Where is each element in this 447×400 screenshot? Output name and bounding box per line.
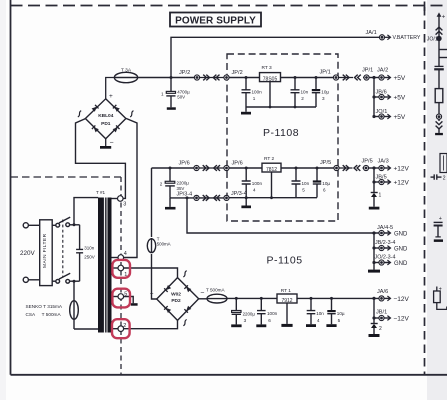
wire cap to resistor [438, 70, 440, 89]
JB/1 branch [374, 317, 379, 319]
capacitor C2200u/3 stem [235, 298, 237, 310]
svg-text:310n: 310n [84, 246, 95, 251]
svg-text:−: − [110, 139, 114, 146]
capacitor C100n/6 plates [257, 311, 266, 314]
arrow JB/5 [384, 181, 390, 183]
wire pin1 to W02 AC top [124, 268, 178, 278]
svg-text:7812: 7812 [266, 167, 277, 173]
capacitor C10u/3 stem [315, 78, 317, 108]
+5V branch riser [373, 78, 375, 117]
connector JO/2-3-4 [379, 260, 384, 265]
capacitor C10n/2 plates [291, 90, 300, 93]
bottom border line [11, 374, 447, 376]
junction C2 top [169, 167, 172, 170]
svg-text:T: T [157, 236, 160, 241]
svg-text:RT 3: RT 3 [262, 65, 273, 71]
wire between JP/2 halves [200, 77, 225, 79]
squiggle AC top [183, 271, 186, 277]
connector JP/1 plug [364, 75, 369, 80]
svg-text:+: + [442, 15, 446, 21]
junction C100n/4 top [245, 167, 248, 170]
capacitor C100n/1 plates [242, 90, 251, 93]
wire corner down to fuse [151, 168, 153, 237]
diode PD2 bottom-left [164, 306, 171, 313]
ground stem bottom [245, 198, 247, 206]
junction rail RT2 pin [270, 196, 273, 199]
capacitor C10u/3 top plate [312, 89, 320, 91]
svg-text:JB/2-3-4: JB/2-3-4 [375, 240, 395, 246]
svg-text:1: 1 [379, 193, 382, 199]
transformer board dashed horizontal [11, 176, 122, 178]
chevrons JP/2 left [213, 75, 219, 81]
ground bar C2200u/3 [231, 324, 241, 327]
branch right 1 [439, 49, 447, 51]
terminal 220V bottom [23, 277, 28, 282]
svg-text:10µ: 10µ [321, 90, 329, 95]
capacitor C1 4700u plates [166, 91, 175, 93]
wire cap2 junction to JP/34 [170, 197, 194, 199]
wire RT3 to caps [281, 77, 335, 79]
wire between JP/34 halves [199, 197, 224, 199]
arrow JA/1 [385, 36, 390, 38]
svg-text:+: + [150, 291, 154, 298]
svg-text:JP/2: JP/2 [232, 70, 243, 76]
svg-text:JP/1: JP/1 [320, 70, 331, 76]
svg-text:+: + [439, 216, 442, 222]
red highlight pin 2 [112, 319, 130, 338]
svg-text:PD2: PD2 [171, 298, 181, 304]
right strip scan shading [427, 0, 447, 400]
chevrons JP/5 right [343, 165, 349, 171]
arrow JB/6 [384, 96, 390, 98]
junction JO/2-3-4 [372, 261, 375, 264]
squiggle AC left [78, 111, 81, 117]
svg-text:5: 5 [338, 318, 341, 323]
junction C100n/1 top [245, 76, 248, 79]
ground bar C10u/5 [326, 324, 336, 327]
bridge PD2 diamond [157, 278, 199, 321]
ground stem [245, 107, 247, 112]
chevrons JP/2 right [203, 75, 209, 81]
capacitor C100n/1 stem [245, 78, 247, 90]
cap plates right top [435, 65, 444, 67]
zener Z1 ground bar [369, 207, 380, 210]
capacitor C2 2200u stem [169, 168, 171, 181]
ground rail P-1108 bottom [229, 197, 317, 199]
svg-text:T #1: T #1 [96, 190, 106, 195]
junction GND drop [186, 196, 189, 199]
capacitor C10n/5 stem [295, 168, 297, 198]
pin 4 circle [118, 255, 124, 261]
svg-text:MAIN FILTER: MAIN FILTER [42, 233, 48, 268]
zener Z2 ground bar [369, 334, 380, 337]
squiggle AC bottom [183, 320, 186, 326]
junction JB/6 [372, 95, 375, 98]
wire between JP/6 halves [199, 167, 224, 169]
svg-text:CSA T 500mA: CSA T 500mA [26, 312, 62, 317]
ground bar P-1108 top [241, 112, 251, 115]
svg-text:GND: GND [394, 247, 408, 253]
pin 3 stub [112, 198, 118, 200]
GND ground stem [373, 263, 375, 270]
junction C10u/6 top [316, 167, 319, 170]
wire fuse to transformer bottom [74, 328, 98, 330]
junction JA/6 [372, 297, 375, 300]
capacitor C2 2200u plates [165, 181, 175, 183]
red highlight pin 1 [112, 260, 130, 278]
junction JO/1 [372, 115, 375, 118]
ground bar C100n/6 [256, 324, 266, 327]
zener Z2 stem to ground [373, 328, 375, 334]
+12V branch riser [373, 168, 375, 182]
pin 4 stub [112, 257, 119, 259]
capacitor C10u/6 stem [316, 168, 318, 198]
svg-text:JP/6: JP/6 [232, 161, 243, 167]
chevrons JP/5 left [354, 165, 360, 171]
junction switch bottom [73, 280, 76, 283]
battery feed wire [438, 15, 440, 37]
svg-text:GND: GND [394, 232, 408, 238]
svg-text:5: 5 [124, 291, 127, 297]
svg-text:4: 4 [124, 251, 127, 257]
squiggle AC right [130, 111, 133, 117]
capacitor C10n/2 stem [294, 78, 296, 108]
junction JA/3 [372, 166, 375, 169]
V.BATTERY riser and wire [171, 37, 379, 77]
svg-text:3: 3 [322, 96, 325, 101]
connector JA/4-5 [379, 230, 384, 235]
connector JP/6 plug [194, 165, 199, 170]
wire switch bottom node [70, 280, 80, 282]
chevrons JP/34 left [214, 195, 220, 201]
connector JA/2 [379, 75, 384, 80]
connector JO/1 battery dot [436, 36, 441, 41]
arrow JO/1 [384, 116, 390, 118]
capacitor C10n/5 plates [292, 181, 301, 184]
svg-text:500mA: 500mA [157, 242, 171, 247]
switch S1a lever [59, 217, 70, 223]
svg-text:JB/1: JB/1 [376, 310, 387, 316]
svg-text:3: 3 [244, 318, 247, 323]
svg-text:P-1108: P-1108 [263, 127, 299, 139]
svg-text:RT 1: RT 1 [281, 288, 292, 294]
GND bus drop [187, 198, 379, 233]
zener Z1 cathode bar [371, 192, 378, 194]
wire down to primary fuse [73, 281, 75, 329]
svg-text:2: 2 [379, 326, 382, 332]
wire filter to switch bottom [52, 280, 55, 282]
diode PD2 top-left [164, 285, 171, 292]
svg-text:1: 1 [161, 91, 164, 96]
transformer core lines [105, 198, 107, 333]
connector JP/2 plug [194, 75, 199, 80]
wire pin4 to bridge AC right [124, 118, 137, 257]
diode PD2 bottom-right [184, 306, 191, 313]
wire RT3 out to JP/1 [334, 77, 364, 79]
svg-text:100n: 100n [252, 90, 263, 95]
capacitor C2 stem to rail [169, 186, 171, 198]
chevrons JP/1 left [355, 75, 361, 81]
svg-text:JA/3: JA/3 [378, 159, 389, 165]
junction JB/5 [372, 180, 375, 183]
GND ground bar [368, 270, 380, 273]
capacitor C10n/4 plates [307, 311, 316, 314]
capacitor C100n/4 stem [245, 168, 247, 198]
svg-text:10µ: 10µ [337, 311, 345, 316]
svg-text:JP/5: JP/5 [320, 160, 331, 166]
battery wire below connector [438, 41, 440, 66]
wire fuse to W02 plus [152, 254, 157, 299]
connector JB/5 [379, 179, 384, 184]
arrow JA/6 [384, 297, 390, 299]
svg-text:−12V: −12V [394, 316, 410, 323]
svg-text:POWER SUPPLY: POWER SUPPLY [175, 16, 256, 27]
capacitor C10u/5 stem [331, 298, 333, 324]
svg-text:5: 5 [302, 187, 305, 192]
chevrons up battery [436, 27, 443, 34]
junction battery/cap node [170, 76, 173, 79]
junction C10u/5 [330, 297, 333, 300]
zener Z2 cathode bar [371, 323, 378, 325]
ground bar RT1 [281, 324, 292, 327]
junction rail C2 [294, 106, 297, 109]
wire W02 minus to fuse [199, 298, 207, 300]
svg-text:PD1: PD1 [101, 121, 111, 127]
svg-text:RT 2: RT 2 [264, 156, 275, 162]
ground rail P-1108 top [246, 106, 316, 108]
svg-text:JA/2: JA/2 [377, 68, 388, 74]
capacitor C10u/5 top plate [327, 310, 335, 312]
main filter box [40, 220, 53, 286]
wire 220V top to filter [28, 224, 39, 226]
junction C10n/4 [310, 297, 313, 300]
chevrons JP/6 left [214, 165, 220, 171]
wire socket to RT3 [229, 77, 260, 79]
svg-text:220V: 220V [20, 250, 36, 257]
junction JA/4-5 [372, 231, 375, 234]
wire RT1 out [297, 297, 379, 299]
connector JA/6 [379, 296, 384, 301]
svg-text:JA/4-5: JA/4-5 [377, 225, 393, 231]
capacitor C1 stem to ground [170, 96, 172, 107]
svg-text:V.BATTERY: V.BATTERY [393, 35, 421, 41]
svg-text:SENKO T 315mA: SENKO T 315mA [26, 304, 63, 309]
zener Z1 triangle [371, 193, 377, 197]
capacitor C100n/1 stem lower [245, 93, 247, 107]
chevrons down right strip [436, 121, 443, 128]
svg-text:250V: 250V [84, 254, 95, 259]
RT2 ground pin [271, 172, 273, 198]
capacitor 310n wire top [79, 225, 81, 249]
bridge - to ground stem [105, 139, 107, 146]
svg-text:GND: GND [394, 261, 408, 267]
junction JB/1 [372, 316, 375, 319]
zener Z1 stem [373, 182, 375, 192]
connector JP/2 socket [224, 75, 229, 80]
svg-text:+: + [109, 93, 113, 100]
regulator RT3 box [260, 73, 281, 82]
wire pin3 riser to bridge AC left [76, 118, 126, 198]
svg-text:2: 2 [123, 323, 126, 329]
svg-text:35V: 35V [177, 186, 185, 191]
svg-text:10n: 10n [301, 90, 309, 95]
switch S1b lever [59, 273, 70, 279]
GND branch riser [373, 233, 375, 263]
svg-text:T 3A: T 3A [121, 67, 132, 73]
chevrons JP/6 right [203, 165, 209, 171]
svg-text:+5V: +5V [394, 114, 406, 121]
capacitor C10u/5 plates [327, 313, 335, 315]
transformer primary winding bar [98, 198, 104, 333]
wire socket to RT2 [229, 167, 262, 169]
JB/5 branch [374, 181, 379, 183]
capacitor C100n/4 plates [242, 181, 251, 184]
svg-text:6: 6 [268, 318, 271, 323]
transformer secondary winding bar [108, 198, 112, 333]
connector JA/1 [379, 35, 384, 40]
top dashed border [11, 5, 447, 7]
left border line [10, 0, 12, 375]
wire JP/5 to JA/3 [369, 167, 380, 169]
capacitor C2 ground bar [165, 207, 176, 210]
capacitor C2200u/3 ground stem [235, 314, 237, 324]
wire connector to chevrons [438, 119, 440, 121]
wire pin2 to W02 AC bottom [124, 320, 178, 328]
svg-text:−12V: −12V [394, 296, 410, 303]
wire filter to switch top [52, 224, 55, 226]
svg-text:2200µ: 2200µ [243, 311, 256, 316]
svg-text:4: 4 [253, 187, 256, 192]
connector JP/34 plug [194, 195, 199, 200]
connector JA/3 [379, 165, 384, 170]
connector JB/1 [379, 315, 384, 320]
transformer board dashed vertical [120, 177, 122, 375]
svg-text:JO/2-3-4: JO/2-3-4 [375, 254, 396, 260]
bridge PD1 diamond [85, 99, 126, 139]
switch S1b contacts [56, 279, 60, 283]
capacitor C2 ground stem [169, 198, 171, 207]
wire RT2 out to JP/5 [334, 167, 364, 169]
wire 220V bottom to filter [28, 279, 39, 281]
junction C10u/3 top [315, 76, 318, 79]
svg-text:50V: 50V [177, 94, 185, 99]
svg-text:+5V: +5V [394, 75, 406, 82]
pin 2 stub [112, 328, 119, 330]
bridge ground bar [100, 146, 111, 149]
pin5 chassis ground bar [131, 303, 138, 306]
pin 5 circle [118, 294, 124, 300]
switch linkage dashed [62, 220, 64, 278]
capacitor C10n/4 stem [310, 298, 312, 324]
svg-text:JP/2: JP/2 [179, 70, 190, 76]
fuse T3A [114, 72, 137, 82]
right border top tick [424, 2, 426, 12]
svg-text:JP/5: JP/5 [362, 159, 373, 165]
regulator RT2 box [262, 163, 281, 172]
svg-text:W02: W02 [171, 291, 181, 297]
capacitor 310n plates [76, 249, 83, 252]
svg-text:JP/1: JP/1 [362, 68, 373, 74]
svg-text:3: 3 [123, 202, 126, 208]
svg-text:10n: 10n [316, 311, 324, 316]
switch S1a contacts [56, 223, 60, 227]
svg-text:T 500mA: T 500mA [206, 288, 225, 293]
svg-text:2: 2 [301, 96, 304, 101]
svg-text:78S05: 78S05 [263, 77, 278, 83]
fuse T500mA minus rail [207, 294, 227, 303]
connector JP/6 socket [224, 165, 229, 170]
junction rail RT3 [269, 106, 272, 109]
junction rail ground [245, 196, 248, 199]
resistor2 box right strip [434, 291, 441, 303]
ground bar P-1108 bottom [241, 206, 251, 209]
pin 3 circle [118, 196, 124, 202]
junction C10n/2 top [294, 76, 297, 79]
diode PD2 top-right [184, 285, 191, 292]
svg-text:JA/1: JA/1 [366, 30, 377, 36]
connector JP/34 socket [224, 195, 229, 200]
wire RT2 to caps [281, 167, 334, 169]
wire resistor to connector [438, 103, 440, 114]
P-1108 dashed board box [227, 54, 338, 221]
svg-text:1: 1 [253, 96, 256, 101]
svg-text:2: 2 [443, 175, 446, 181]
junction JA/2 [372, 76, 375, 79]
resistor2 right strip stem [436, 287, 438, 292]
wire corner to JP/6 [152, 167, 195, 169]
fuse T500mA primary [70, 301, 79, 320]
connector JO/1 [379, 114, 384, 119]
POWER SUPPLY title box [170, 13, 261, 27]
cap-ground thick bar [434, 239, 443, 242]
pin 2 circle [118, 326, 124, 332]
connector JP/1 socket [333, 75, 338, 80]
arrow JA/2 [384, 77, 390, 79]
pin 1 circle [118, 265, 124, 271]
svg-text:2: 2 [160, 181, 163, 186]
wire primary riser top [74, 198, 98, 225]
connector right strip mid [436, 114, 441, 119]
capacitor C1 ground bar [167, 107, 176, 110]
wire JP/1 to JA/2 [369, 77, 379, 79]
red highlight pin 5 [112, 289, 130, 308]
wire fuse to RT1 [227, 297, 277, 299]
resistor2 wire corner [437, 303, 447, 310]
wire pin5 to chassis ground [124, 297, 134, 304]
svg-text:6: 6 [323, 187, 326, 192]
svg-text:+12V: +12V [394, 180, 410, 187]
connector JP/5 plug [363, 165, 368, 170]
resistor box right [435, 89, 443, 103]
capacitor C100n/6 stem [260, 298, 262, 324]
svg-text:10µ: 10µ [322, 181, 330, 186]
pin 1 stub [112, 267, 119, 269]
arrow JA/3 [384, 167, 390, 169]
svg-text:+5V: +5V [394, 95, 406, 102]
fuse T500mA secondary [147, 239, 155, 253]
svg-text:P-1105: P-1105 [266, 255, 302, 267]
svg-text:100n: 100n [267, 311, 278, 316]
junction C2200u/3 [235, 297, 238, 300]
wire fuse T3A rail [114, 77, 194, 79]
svg-text:7912: 7912 [281, 298, 292, 304]
JB/6 branch [374, 96, 379, 98]
diode PD1 bottom-right [112, 125, 119, 132]
relay box right strip [440, 154, 447, 173]
svg-text:JP/6: JP/6 [179, 160, 190, 166]
junction C100n/6 [260, 297, 263, 300]
capacitor 310n wire bottom [79, 253, 81, 281]
